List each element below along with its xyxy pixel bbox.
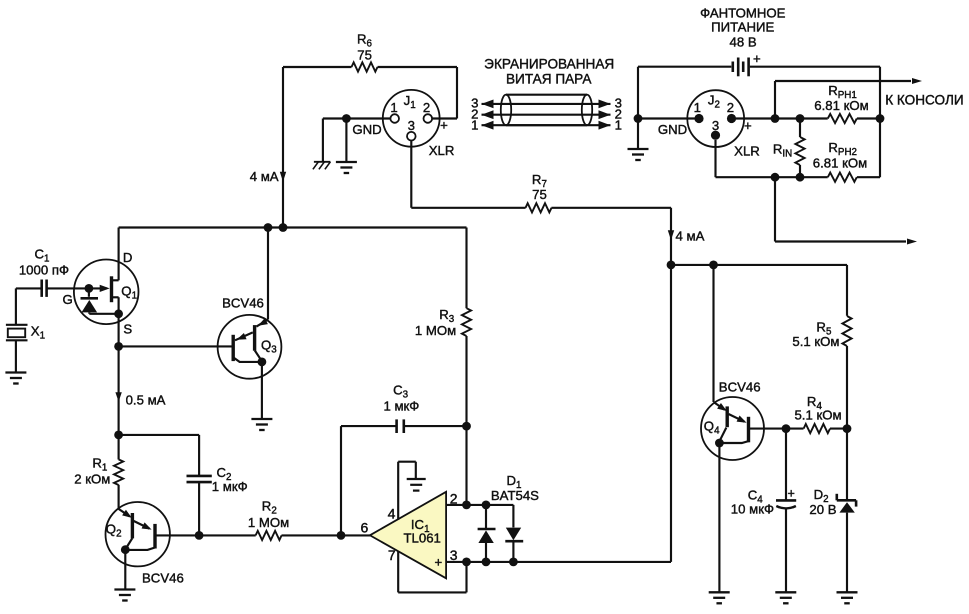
svg-text:1: 1 (615, 117, 622, 132)
svg-text:1000 пФ: 1000 пФ (19, 262, 69, 277)
svg-text:XLR: XLR (734, 143, 760, 158)
svg-text:6.81 кОм: 6.81 кОм (814, 98, 868, 113)
svg-text:BCV46: BCV46 (142, 571, 184, 586)
svg-text:GND: GND (658, 122, 687, 137)
svg-text:+: + (753, 51, 761, 66)
svg-text:1: 1 (694, 100, 701, 115)
svg-text:GND: GND (352, 122, 381, 137)
svg-text:1 МОм: 1 МОм (415, 323, 456, 338)
svg-text:+: + (744, 118, 752, 133)
svg-text:5.1 кОм: 5.1 кОм (792, 334, 839, 349)
svg-text:XLR: XLR (429, 143, 455, 158)
svg-text:3: 3 (712, 118, 719, 133)
svg-text:1 мкФ: 1 мкФ (212, 479, 248, 494)
svg-text:+: + (440, 118, 448, 133)
svg-text:75: 75 (357, 47, 372, 62)
svg-text:4 мА: 4 мА (676, 228, 705, 243)
svg-text:2 кОм: 2 кОм (74, 471, 110, 486)
svg-text:20 В: 20 В (809, 502, 836, 517)
svg-text:ВИТАЯ ПАРА: ВИТАЯ ПАРА (506, 71, 592, 86)
svg-text:G: G (62, 292, 72, 307)
svg-text:+: + (434, 554, 442, 569)
svg-text:2: 2 (423, 100, 430, 115)
svg-text:+: + (788, 487, 795, 501)
svg-text:2: 2 (727, 100, 734, 115)
svg-text:4 мА: 4 мА (250, 169, 279, 184)
svg-text:4: 4 (388, 505, 396, 521)
svg-text:BCV46: BCV46 (719, 379, 761, 394)
svg-text:1: 1 (390, 100, 397, 115)
svg-text:ПИТАНИЕ: ПИТАНИЕ (711, 20, 774, 35)
svg-text:6: 6 (361, 520, 369, 536)
svg-text:BAT54S: BAT54S (491, 488, 539, 503)
svg-text:S: S (123, 321, 132, 336)
svg-text:1: 1 (471, 117, 478, 132)
svg-text:0.5 мА: 0.5 мА (126, 393, 166, 408)
svg-text:7: 7 (388, 547, 396, 563)
svg-text:3: 3 (408, 118, 415, 133)
svg-text:К КОНСОЛИ: К КОНСОЛИ (885, 93, 963, 108)
svg-text:75: 75 (532, 187, 547, 202)
svg-text:ФАНТОМНОЕ: ФАНТОМНОЕ (700, 6, 786, 21)
svg-text:D: D (123, 250, 133, 265)
svg-text:5.1 кОм: 5.1 кОм (794, 408, 841, 423)
svg-text:6.81 кОм: 6.81 кОм (813, 155, 867, 170)
svg-text:ЭКРАНИРОВАННАЯ: ЭКРАНИРОВАННАЯ (484, 56, 614, 71)
svg-text:1 мкФ: 1 мкФ (383, 399, 419, 414)
svg-text:BCV46: BCV46 (222, 295, 264, 310)
svg-text:3: 3 (450, 547, 458, 563)
svg-text:10 мкФ: 10 мкФ (731, 502, 774, 517)
svg-text:48 В: 48 В (730, 34, 757, 49)
svg-text:TL061: TL061 (403, 530, 440, 545)
svg-text:1 МОм: 1 МОм (248, 515, 289, 530)
